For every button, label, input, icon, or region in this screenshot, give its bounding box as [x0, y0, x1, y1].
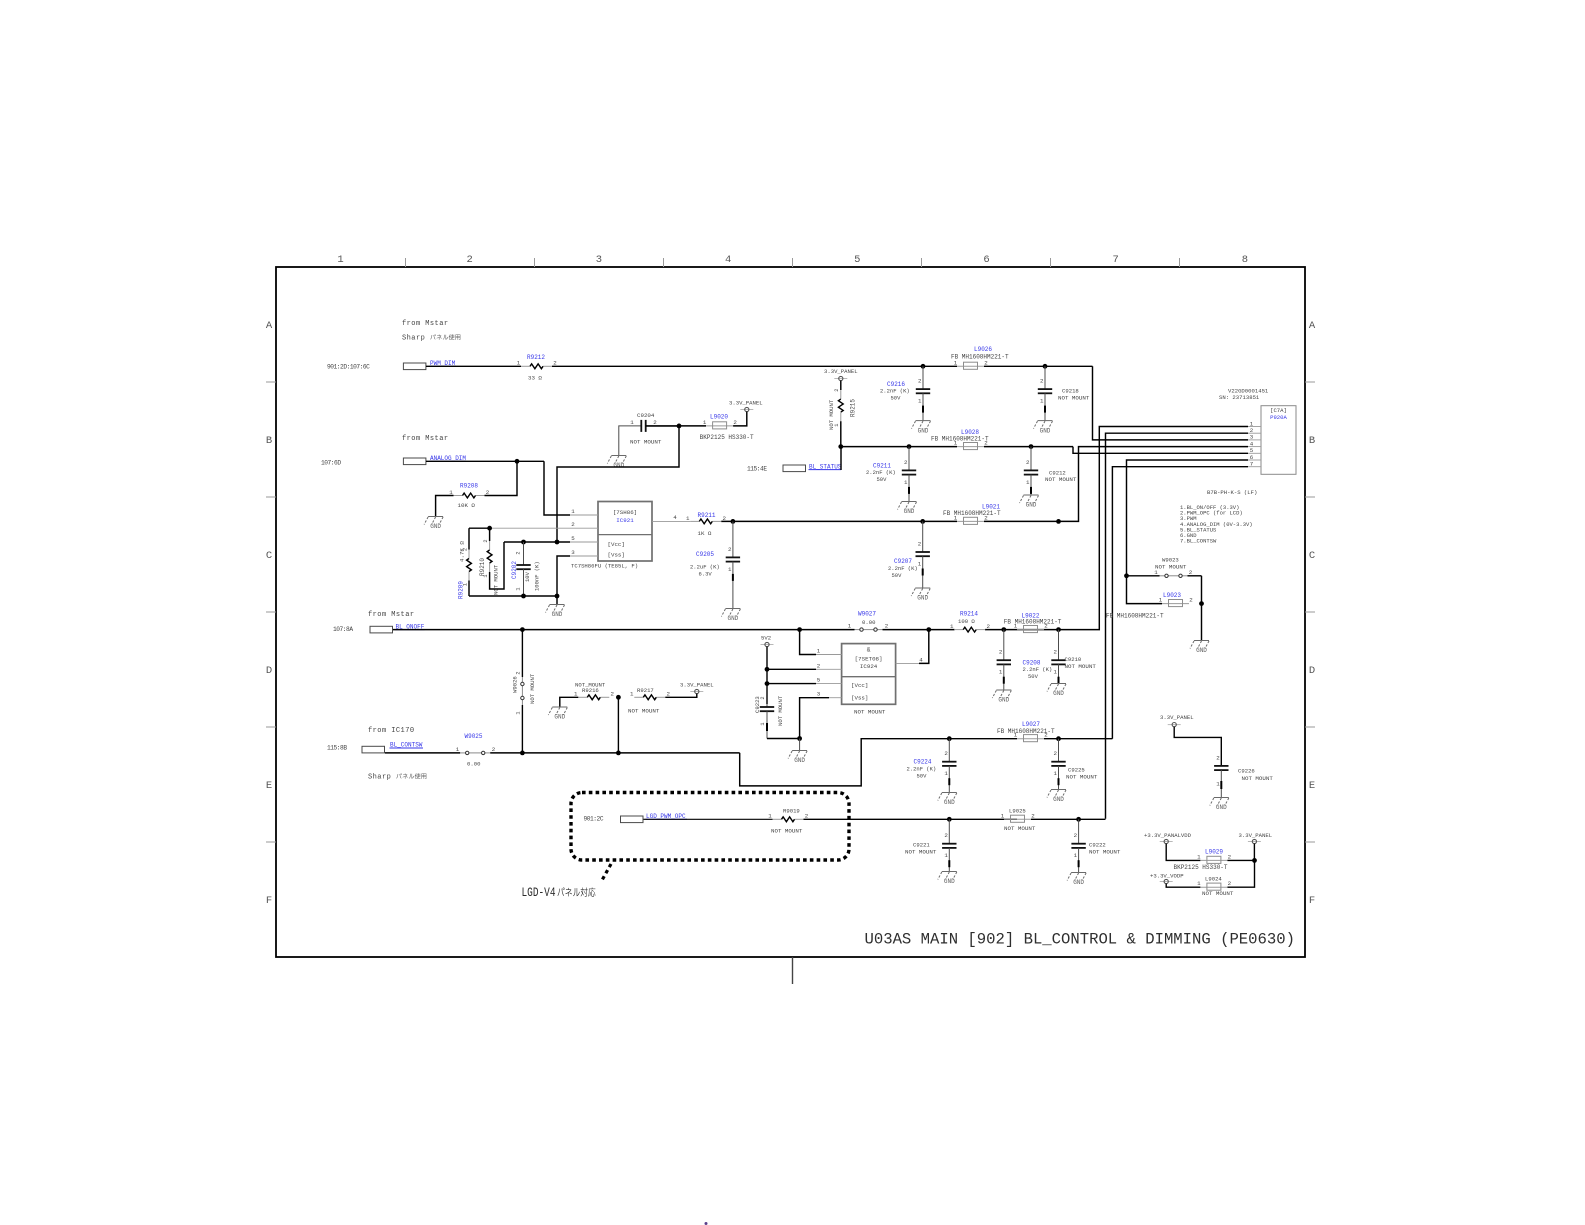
wire IC921 Vss to gnd rail — [557, 556, 570, 604]
svg-text:GND: GND — [794, 757, 805, 764]
svg-text:50V: 50V — [917, 772, 928, 779]
svg-text:W9025: W9025 — [465, 733, 483, 740]
svg-text:2: 2 — [483, 539, 489, 542]
svg-text:1: 1 — [1074, 852, 1078, 859]
node PWM at C9218 — [1043, 364, 1048, 369]
ground below C9218 — [1038, 420, 1053, 422]
ground IC921 — [550, 604, 565, 606]
capacitor C9222 NOT MOUNT — [1078, 819, 1080, 843]
svg-text:[Vcc]: [Vcc] — [851, 682, 868, 689]
svg-text:1: 1 — [848, 623, 852, 630]
svg-text:GND: GND — [944, 878, 955, 885]
svg-text:1: 1 — [516, 711, 522, 714]
node C9212 — [1029, 444, 1034, 449]
node gnd rail vss — [555, 594, 560, 599]
svg-text:2: 2 — [733, 419, 737, 426]
svg-text:1: 1 — [1197, 853, 1201, 860]
svg-text:3.3V_PANEL: 3.3V_PANEL — [729, 400, 763, 407]
wire R9211 to L9021 row — [721, 520, 957, 522]
node L9021 out — [1056, 519, 1061, 524]
border frame — [276, 267, 1305, 957]
ic IC921 pin stubs — [570, 514, 598, 516]
node IC924 gnd — [797, 736, 802, 741]
node W9023 L9023 left — [1124, 573, 1129, 578]
svg-text:1: 1 — [1159, 597, 1163, 604]
svg-text:R9215: R9215 — [850, 399, 857, 417]
node 5V2 pin5 — [765, 681, 770, 686]
svg-text:C9218: C9218 — [1062, 388, 1079, 395]
svg-text:2: 2 — [817, 662, 821, 669]
svg-text:C9225: C9225 — [1068, 767, 1085, 774]
svg-text:2: 2 — [986, 623, 990, 630]
svg-text:50V: 50V — [1028, 673, 1039, 680]
svg-text:2: 2 — [728, 546, 732, 553]
svg-text:2: 2 — [516, 551, 522, 554]
svg-text:R9214: R9214 — [960, 611, 978, 618]
wire PWM_OPC vertical to pin2 — [1106, 433, 1249, 819]
svg-text:B: B — [1309, 435, 1315, 447]
wire 3.3V_PANEL down — [1253, 844, 1255, 861]
ground below C9205 — [725, 608, 740, 610]
svg-text:2: 2 — [834, 389, 840, 392]
svg-text:2: 2 — [1054, 649, 1058, 656]
svg-text:1: 1 — [728, 566, 732, 573]
svg-text:1: 1 — [517, 360, 521, 367]
svg-text:2: 2 — [1054, 750, 1058, 757]
svg-text:115:8B: 115:8B — [327, 745, 347, 752]
svg-text:2: 2 — [653, 419, 657, 426]
svg-text:C9226: C9226 — [1238, 768, 1255, 775]
svg-text:1: 1 — [944, 852, 948, 859]
wire R9216 node down — [617, 697, 619, 753]
svg-text:6.3V: 6.3V — [699, 570, 713, 577]
wire IC924 pin4 to row D — [919, 630, 929, 664]
svg-text:NOT MOUNT: NOT MOUNT — [529, 673, 536, 704]
svg-text:3.3V_PANEL: 3.3V_PANEL — [824, 368, 858, 375]
svg-text:F: F — [266, 895, 272, 907]
node L9023 out — [1199, 601, 1204, 606]
wire R9217 to 3.3V_PANEL — [665, 694, 697, 698]
wire 5V2 to IC924 pin2 — [767, 668, 816, 670]
svg-text:2: 2 — [467, 254, 473, 266]
svg-text:2: 2 — [918, 378, 922, 385]
svg-text:2: 2 — [999, 649, 1003, 656]
wire BL_STATUS row — [841, 446, 957, 448]
svg-text:5V2: 5V2 — [761, 635, 771, 642]
svg-text:FB MH1608HM221-T: FB MH1608HM221-T — [951, 354, 1009, 361]
node R9216 branch — [616, 751, 621, 756]
svg-text:C9210: C9210 — [1065, 656, 1082, 663]
svg-text:NOT MOUNT: NOT MOUNT — [1066, 774, 1098, 781]
svg-text:R9212: R9212 — [527, 354, 545, 361]
node 3.3V at L9020 — [677, 424, 682, 429]
svg-text:1: 1 — [954, 440, 958, 447]
wire IC924 pin3 to gnd node — [800, 698, 829, 739]
svg-text:5: 5 — [571, 535, 575, 542]
node C9208 top — [1001, 627, 1006, 632]
svg-text:2: 2 — [462, 548, 468, 551]
svg-text:C9207: C9207 — [894, 558, 912, 565]
svg-text:&: & — [867, 647, 871, 654]
svg-text:1: 1 — [1014, 732, 1018, 739]
node W9026 bottom — [520, 751, 525, 756]
svg-text:1: 1 — [1001, 812, 1005, 819]
svg-text:2: 2 — [944, 832, 948, 839]
svg-text:E: E — [266, 780, 272, 792]
connector stub BL_ONOFF — [370, 626, 393, 633]
ground below C9210 — [1051, 683, 1066, 685]
svg-text:2: 2 — [1026, 459, 1030, 466]
node L9027 out — [1056, 736, 1061, 741]
capacitor C9210 NOT MOUNT — [1058, 630, 1060, 661]
svg-text:2: 2 — [611, 691, 615, 698]
node IC924 pin4 branch — [926, 627, 931, 632]
svg-text:A: A — [266, 320, 273, 332]
ground below C9221 — [942, 871, 957, 873]
svg-text:NOT MOUNT: NOT MOUNT — [1045, 476, 1077, 483]
svg-text:GND: GND — [917, 595, 928, 602]
svg-text:3.3V_PANEL: 3.3V_PANEL — [1239, 832, 1273, 839]
svg-text:GND: GND — [944, 799, 955, 806]
node pin2 net — [487, 526, 492, 531]
ground below R9208 — [428, 516, 443, 518]
wire gnd rail under IC921 — [469, 595, 557, 597]
ground below C9211 — [902, 501, 917, 503]
svg-text:0.00: 0.00 — [467, 761, 481, 768]
node C9224 top — [947, 736, 952, 741]
svg-text:BKP2125 HS330-T: BKP2125 HS330-T — [1174, 864, 1228, 871]
ic U-block IC921 body — [598, 502, 652, 562]
connector C7A P920A body — [1261, 406, 1296, 475]
node IC924 pin1 branch — [797, 627, 802, 632]
svg-text:2: 2 — [516, 671, 522, 674]
svg-text:GND: GND — [727, 615, 738, 622]
wire BL_ONOFF vertical to pin1 — [1059, 427, 1249, 630]
svg-text:BKP2125 HS330-T: BKP2125 HS330-T — [700, 434, 754, 441]
svg-text:C9205: C9205 — [696, 551, 714, 558]
wire Vcc rail pin5 row — [504, 541, 570, 543]
node ANALOG_DIM branch — [515, 459, 520, 464]
svg-text:GND: GND — [1053, 796, 1064, 803]
ground below C9212 — [1024, 494, 1039, 496]
connector stub LGD_PWM_OPC — [621, 816, 644, 823]
svg-text:NOT MOUNT: NOT MOUNT — [854, 709, 886, 716]
svg-text:2: 2 — [1044, 732, 1048, 739]
svg-text:2: 2 — [1074, 832, 1078, 839]
svg-text:2: 2 — [984, 514, 988, 521]
svg-text:GND: GND — [1026, 502, 1037, 509]
svg-text:NOT MOUNT: NOT MOUNT — [1004, 825, 1036, 832]
svg-text:8: 8 — [1242, 254, 1248, 266]
top border ticks — [405, 258, 407, 267]
ground below C9208 — [996, 689, 1011, 691]
svg-text:from Mstar: from Mstar — [402, 320, 449, 328]
svg-text:2: 2 — [918, 541, 922, 548]
wire R9208 node to ANALOG_DIM node — [485, 461, 518, 495]
svg-text:3: 3 — [817, 691, 821, 698]
svg-text:GND: GND — [904, 508, 915, 515]
node BL_STATUS R9215 — [838, 444, 843, 449]
svg-text:R9019: R9019 — [783, 807, 800, 814]
node L9029 L9024 — [1252, 858, 1257, 863]
svg-text:1: 1 — [686, 515, 690, 522]
dashed highlight box LGD — [571, 793, 849, 861]
svg-text:1: 1 — [1154, 569, 1158, 576]
svg-text:GND: GND — [1073, 879, 1084, 886]
svg-text:2: 2 — [885, 623, 889, 630]
left border ticks — [266, 381, 276, 383]
svg-text:4: 4 — [919, 656, 923, 663]
connector stub PWM_DIM — [403, 363, 426, 370]
wire 5V2 to IC924 pin5 — [767, 683, 816, 685]
capacitor C9212 NOT MOUNT — [1030, 447, 1032, 471]
svg-text:D: D — [1309, 665, 1315, 677]
svg-text:100nF (K): 100nF (K) — [534, 561, 541, 591]
svg-text:C: C — [1309, 550, 1315, 562]
svg-text:from Mstar: from Mstar — [402, 435, 449, 443]
capacitor C9225 NOT MOUNT — [1058, 739, 1060, 762]
node PWM at C9216 — [921, 364, 926, 369]
capacitor C9208 — [1003, 630, 1005, 661]
svg-text:2: 2 — [492, 746, 496, 753]
ground below C9226 — [1214, 797, 1229, 799]
svg-text:FB MH1608HM221-T: FB MH1608HM221-T — [943, 510, 1001, 517]
svg-text:1: 1 — [950, 623, 954, 630]
svg-text:R9211: R9211 — [698, 512, 716, 519]
svg-text:3.3V_PANEL: 3.3V_PANEL — [1160, 714, 1194, 721]
svg-text:1: 1 — [1216, 781, 1220, 788]
svg-text:6: 6 — [983, 254, 989, 266]
svg-text:R9210: R9210 — [479, 558, 486, 576]
svg-text:A: A — [1309, 320, 1316, 332]
svg-text:GND: GND — [1196, 647, 1207, 654]
wire L9023 to ground — [1201, 604, 1203, 640]
svg-text:GND: GND — [430, 523, 441, 530]
svg-text:D: D — [266, 665, 272, 677]
svg-text:1: 1 — [834, 424, 840, 427]
svg-text:GND: GND — [1040, 427, 1051, 434]
wire PANALVDD to L9029 — [1166, 844, 1200, 861]
connector stub ANALOG_DIM — [403, 458, 426, 465]
svg-text:115:4E: 115:4E — [747, 466, 767, 473]
svg-text:7: 7 — [1113, 254, 1119, 266]
svg-text:3.3V_PANEL: 3.3V_PANEL — [680, 682, 714, 689]
svg-text:from IC170: from IC170 — [368, 727, 415, 735]
svg-text:1: 1 — [904, 479, 908, 486]
svg-text:1: 1 — [337, 254, 343, 266]
wire 3.3V rail down to IC921 Vcc — [557, 426, 679, 542]
wire node down to L9024 — [1227, 860, 1254, 887]
svg-text:1: 1 — [1026, 479, 1030, 486]
svg-text:2: 2 — [571, 521, 575, 528]
svg-text:10V: 10V — [524, 571, 531, 582]
node L9022 out — [1056, 627, 1061, 632]
svg-text:1: 1 — [1197, 880, 1201, 887]
node C9211 — [907, 444, 912, 449]
svg-text:LGD-V4: LGD-V4 — [522, 885, 556, 900]
wire BL_STATUS label to row — [840, 447, 842, 470]
ground below C9224 — [942, 792, 957, 794]
node 5V2 pin2 — [765, 667, 770, 672]
wire BL_ONOFF row — [393, 629, 855, 631]
wire VODP to L9024 — [1166, 884, 1200, 888]
node C9222 top — [1076, 817, 1081, 822]
svg-text:C9204: C9204 — [637, 412, 655, 419]
node C9202 top — [521, 540, 526, 545]
bottom center fold tick — [792, 957, 794, 984]
svg-text:Sharp: Sharp — [368, 774, 391, 782]
wire R9216 to ground — [560, 697, 579, 706]
svg-text:NOT MOUNT: NOT MOUNT — [1058, 395, 1090, 402]
svg-text:[7SET08]: [7SET08] — [855, 656, 883, 663]
svg-text:R9216: R9216 — [582, 687, 599, 694]
svg-text:SN: 23713851: SN: 23713851 — [1219, 394, 1260, 401]
svg-text:[C7A]: [C7A] — [1270, 407, 1287, 414]
svg-text:C9221: C9221 — [913, 842, 930, 849]
svg-text:IC924: IC924 — [860, 663, 878, 670]
svg-text:F: F — [1309, 895, 1315, 907]
svg-text:2: 2 — [1044, 623, 1048, 630]
svg-text:7: 7 — [1250, 461, 1254, 468]
svg-text:NOT MOUNT: NOT MOUNT — [1089, 849, 1121, 856]
wire BL_CONTSW jog down — [740, 739, 1017, 786]
svg-text:[Vss]: [Vss] — [608, 551, 625, 558]
wire L9029 to 3.3V_PANEL node — [1227, 859, 1254, 861]
svg-text:107:8A: 107:8A — [333, 626, 353, 633]
svg-text:33 Ω: 33 Ω — [528, 374, 542, 381]
wire C9223 to gnd node — [767, 738, 800, 740]
ground IC924 — [799, 739, 801, 751]
connector stub BL_CONTSW — [362, 746, 385, 753]
svg-text:1: 1 — [954, 514, 958, 521]
wire W9023 right down — [1201, 576, 1203, 604]
svg-text:1: 1 — [1040, 398, 1044, 405]
svg-text:L9023: L9023 — [1163, 592, 1181, 599]
ground below C9216 — [916, 420, 931, 422]
svg-text:1: 1 — [918, 561, 922, 568]
svg-text:C9224: C9224 — [914, 759, 932, 766]
wire R9208 to ground — [436, 496, 454, 517]
svg-text:GND: GND — [918, 427, 929, 434]
svg-text:901:2D:107:6C: 901:2D:107:6C — [327, 364, 370, 371]
ground below L9023 — [1194, 640, 1209, 642]
wire left branch to L9023 — [1127, 576, 1163, 604]
svg-text:W9026: W9026 — [512, 676, 519, 693]
wire L9020 to 3.3V_PANEL — [733, 412, 747, 426]
wire PWM to connector pin3 — [1093, 366, 1249, 440]
wire BL_STATUS to connector pin5 — [1073, 447, 1248, 454]
svg-text:L9027: L9027 — [1022, 721, 1040, 728]
wire 3.3V_PANEL to C9226 — [1174, 727, 1221, 766]
svg-text:NOT MOUNT: NOT MOUNT — [905, 849, 937, 856]
ground below C9204 — [611, 455, 626, 457]
svg-text:NOT MOUNT: NOT MOUNT — [777, 695, 784, 726]
svg-text:NOT MOUNT: NOT MOUNT — [1202, 890, 1234, 897]
svg-text:100 Ω: 100 Ω — [958, 618, 975, 625]
svg-text:FB MH1608HM221-T: FB MH1608HM221-T — [1004, 618, 1062, 625]
node R9216 R9217 — [616, 695, 621, 700]
svg-text:1: 1 — [456, 746, 460, 753]
wire GND net to pin6 — [1127, 460, 1249, 576]
svg-text:1: 1 — [918, 398, 922, 405]
page artifact dot — [705, 1222, 708, 1225]
svg-text:NOT MOUNT: NOT MOUNT — [630, 439, 662, 446]
svg-text:L9025: L9025 — [1009, 807, 1026, 814]
ic IC924 pin stubs — [816, 654, 842, 656]
svg-text:GND: GND — [998, 697, 1009, 704]
wire row D to IC924 pin1 — [800, 630, 816, 655]
svg-text:2: 2 — [1040, 378, 1044, 385]
svg-text:2: 2 — [1216, 755, 1220, 762]
wire L9025 out — [1031, 818, 1079, 820]
svg-text:2: 2 — [904, 459, 908, 466]
svg-text:GND: GND — [1216, 804, 1227, 811]
svg-text:R9208: R9208 — [460, 483, 478, 490]
ground below C9207 — [915, 587, 930, 589]
ground below C9225 — [1051, 789, 1066, 791]
svg-text:NOT MOUNT: NOT MOUNT — [1065, 663, 1097, 670]
svg-text:E: E — [1309, 780, 1315, 792]
svg-text:+3.3V_VODP: +3.3V_VODP — [1150, 873, 1184, 880]
svg-text:U03AS MAIN [902] BL_CONTROL &: U03AS MAIN [902] BL_CONTROL & DIMMING (P… — [865, 930, 1295, 948]
svg-text:2: 2 — [760, 696, 766, 699]
svg-text:1: 1 — [571, 508, 575, 515]
svg-text:1: 1 — [999, 669, 1003, 676]
svg-text:[Vss]: [Vss] — [851, 695, 868, 702]
wire BL_CONTSW vertical to pin7 — [1112, 467, 1248, 739]
svg-text:10K Ω: 10K Ω — [458, 502, 476, 509]
connector P920A pin stubs — [1248, 426, 1261, 428]
svg-text:from Mstar: from Mstar — [368, 611, 415, 619]
svg-text:1K Ω: 1K Ω — [698, 530, 712, 537]
svg-text:Sharp: Sharp — [402, 335, 425, 343]
svg-text:FB MH1608HM221-T: FB MH1608HM221-T — [1106, 613, 1164, 620]
connector stub BL_STATUS — [783, 465, 806, 472]
node W9026 top — [520, 627, 525, 632]
svg-text:2: 2 — [486, 489, 490, 496]
svg-text:1: 1 — [630, 419, 634, 426]
svg-text:4: 4 — [725, 254, 731, 266]
ground below R9216 — [552, 706, 567, 708]
svg-text:1: 1 — [768, 813, 772, 820]
node Vcc to 3.3V riser — [555, 540, 560, 545]
svg-text:3: 3 — [571, 549, 575, 556]
svg-text:2.2nF (K): 2.2nF (K) — [888, 565, 918, 572]
svg-text:0.00: 0.00 — [862, 619, 876, 626]
svg-text:NOT MOUNT: NOT MOUNT — [771, 828, 803, 835]
svg-text:IC921: IC921 — [616, 517, 634, 524]
svg-text:GND: GND — [613, 462, 624, 469]
svg-text:2: 2 — [1228, 853, 1232, 860]
svg-text:1: 1 — [954, 359, 958, 366]
svg-text:1: 1 — [817, 648, 821, 655]
svg-text:4: 4 — [673, 514, 677, 521]
svg-text:50V: 50V — [892, 572, 903, 579]
wire LGD net to pin2 riser — [1079, 818, 1106, 820]
svg-text:[Vcc]: [Vcc] — [608, 541, 625, 548]
svg-text:L9020: L9020 — [710, 414, 728, 421]
wire ANALOG_DIM to IC921 pin1 — [544, 461, 570, 515]
svg-text:GND: GND — [554, 714, 565, 721]
svg-text:B: B — [266, 435, 272, 447]
svg-text:GND: GND — [552, 611, 563, 618]
wire ANALOG_DIM — [426, 460, 544, 462]
svg-text:2: 2 — [984, 359, 988, 366]
svg-text:NOT MOUNT: NOT MOUNT — [628, 708, 660, 715]
svg-text:+3.3V_PANALVDD: +3.3V_PANALVDD — [1144, 832, 1192, 839]
svg-text:2: 2 — [1189, 597, 1193, 604]
dashed leader line — [601, 864, 611, 882]
